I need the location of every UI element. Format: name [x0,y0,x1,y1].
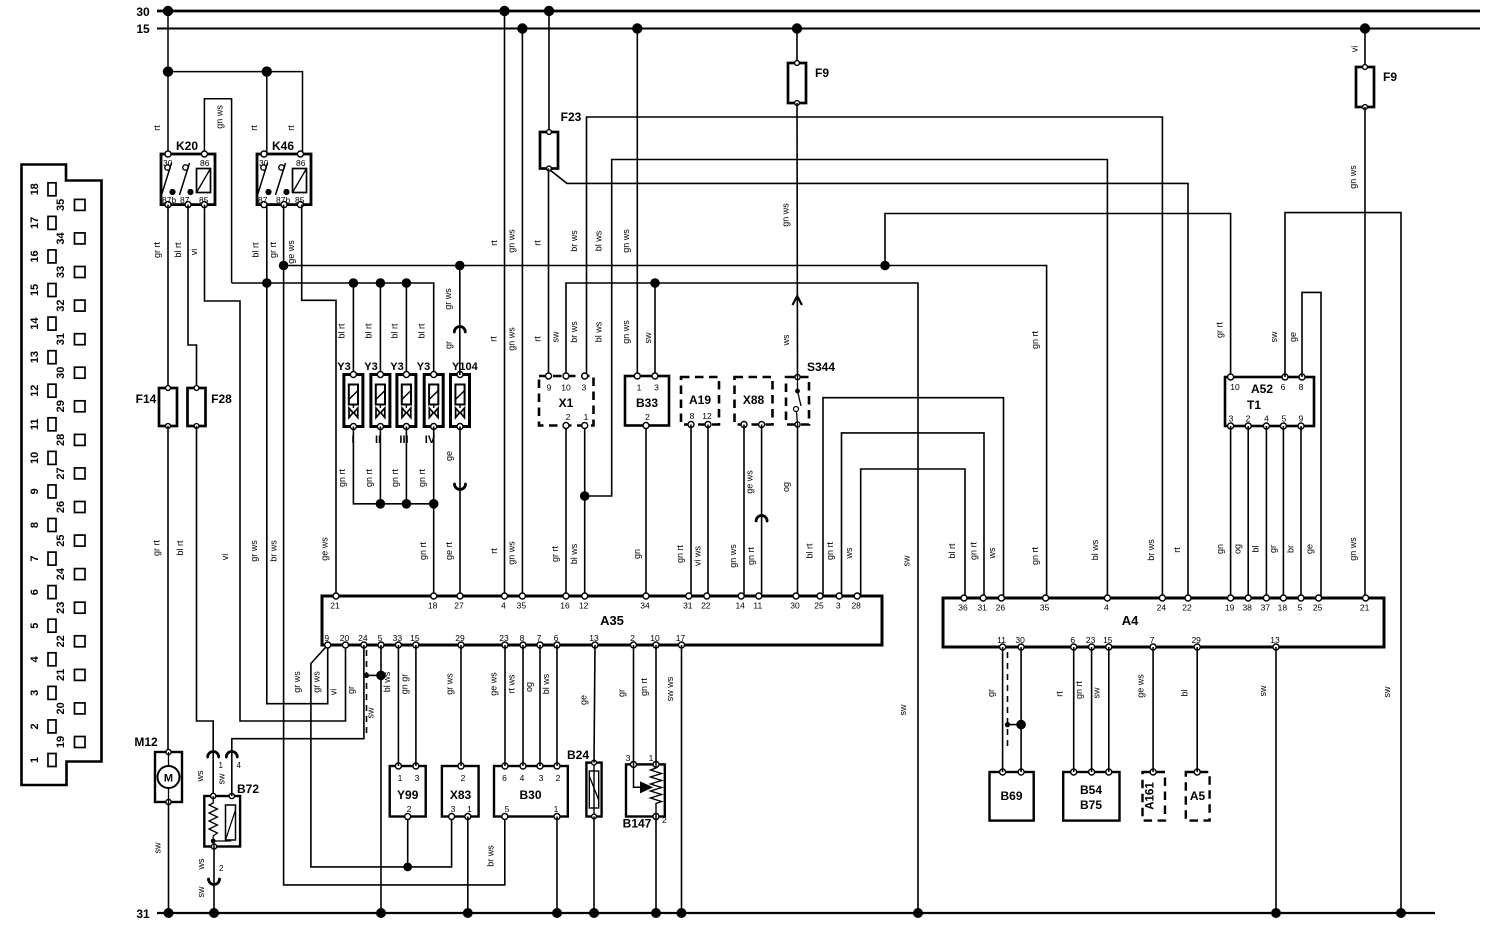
svg-text:30: 30 [1015,635,1025,645]
junction bus31 A35-5 [376,908,386,918]
svg-text:10: 10 [650,633,660,643]
svg-text:og: og [781,482,791,492]
svg-text:31: 31 [136,907,150,921]
svg-text:5: 5 [505,804,510,814]
svg-text:37: 37 [1261,603,1271,613]
svg-text:30: 30 [790,601,800,611]
solenoid valve Y3 II [371,372,390,430]
svg-text:34: 34 [55,231,67,244]
svg-text:3: 3 [654,383,659,393]
svg-text:rt ws: rt ws [507,674,517,693]
wire A35-15 gn-gr to Y99 pin 3 [415,645,417,766]
wire X83 pin 1 to bus 31 [467,817,469,914]
svg-text:A4: A4 [1122,613,1139,628]
svg-text:29: 29 [55,400,67,412]
svg-text:4: 4 [1104,603,1109,613]
wire A35-17 sw-ws to bus 31 [681,645,683,913]
svg-text:bl rt: bl rt [251,242,261,258]
svg-text:7: 7 [29,556,41,562]
svg-text:sw: sw [1269,331,1279,343]
wire A4-29 bl to A5 [1196,647,1198,772]
svg-text:2: 2 [566,412,571,422]
svg-text:rt: rt [1172,547,1182,553]
svg-text:24: 24 [55,567,67,580]
wire A35-2 gr to B147 pin 3 [633,645,635,764]
svg-text:X83: X83 [450,788,472,802]
svg-text:bl rt: bl rt [337,323,347,339]
wire F28 bl-rt to B72 pin 1 [197,426,214,795]
junction bus15 F9 [792,23,802,33]
wire feed to K46 pin 30 [266,72,268,154]
svg-text:vi: vi [220,554,230,561]
svg-text:3: 3 [29,690,41,696]
control unit A52 T1 [1225,374,1314,429]
svg-text:gr rt: gr rt [550,546,560,563]
svg-text:gr: gr [617,689,627,697]
wire bl-rt to Y3 II [379,283,381,375]
svg-text:25: 25 [1313,603,1323,613]
svg-text:X88: X88 [743,393,765,407]
svg-text:F9: F9 [815,66,829,80]
svg-text:2: 2 [556,773,561,783]
wire A4-11 gr to B69 [1002,647,1004,772]
svg-text:gn ws: gn ws [507,541,517,565]
svg-text:gn ws: gn ws [507,229,517,253]
wire B33 pin 2 gn to A35 pin 34 [645,426,647,597]
wire bl-rt to Y3 III [405,283,407,375]
svg-text:gn rt: gn rt [639,677,649,696]
fuse F14 [136,386,177,429]
junction bus31 A4-13 [1271,908,1281,918]
svg-text:sw: sw [1092,687,1102,699]
svg-text:38: 38 [1242,603,1252,613]
svg-text:35: 35 [55,199,67,211]
wire A35-10 gn-rt to B147 pin 1 [655,645,657,764]
svg-text:rt: rt [489,548,499,554]
svg-text:rt: rt [286,125,296,131]
svg-text:bl rt: bl rt [805,543,815,559]
svg-text:2: 2 [407,804,412,814]
svg-text:bl ws: bl ws [594,230,604,251]
connector X88 [735,377,773,428]
svg-text:1: 1 [467,804,472,814]
svg-text:T1: T1 [1247,398,1261,412]
node line A to A4 pin 35 [284,266,1047,599]
junction bus31 M12 [164,908,174,918]
svg-text:A19: A19 [689,393,711,407]
svg-text:1: 1 [29,757,41,763]
svg-text:B30: B30 [519,788,541,802]
svg-text:sw: sw [551,331,561,343]
connector X1 [539,373,594,429]
wire K20 85 vi to A35 pin 20 [205,205,346,721]
wire K20 87 bl-rt to F28 [188,205,197,388]
svg-text:B33: B33 [636,396,658,410]
svg-text:86: 86 [296,158,306,168]
svg-text:A5: A5 [1190,789,1206,803]
svg-text:25: 25 [814,601,824,611]
junction line A / A52 branch [880,261,890,271]
svg-text:br ws: br ws [1146,539,1156,561]
svg-text:9: 9 [29,488,41,494]
wire A52 pin 6 sw to bus 31 [1285,213,1401,913]
svg-text:1: 1 [554,804,559,814]
svg-text:16: 16 [560,601,570,611]
control unit A5 [1186,769,1210,821]
svg-text:bl rt: bl rt [947,543,957,559]
svg-text:rt: rt [533,336,543,342]
svg-text:rt: rt [489,336,499,342]
svg-text:gn ws: gn ws [1348,165,1358,189]
wires A52 bottom pins to A4 pins 19/38/37/18/5 [1230,426,1232,598]
svg-text:11: 11 [753,601,762,611]
svg-text:gn rt: gn rt [390,468,400,487]
svg-text:gr ws: gr ws [249,540,259,562]
svg-text:Y99: Y99 [397,788,419,802]
svg-text:vi: vi [189,249,199,256]
junction bus30 [499,6,509,16]
solenoid valve Y3 III [397,372,416,430]
svg-text:8: 8 [520,633,525,643]
wire B30 pin 1 to bus 31 [556,817,558,914]
svg-text:17: 17 [676,633,686,643]
svg-text:1: 1 [219,761,224,770]
wire A35-13 ge to B24 [594,645,595,763]
wires Y3 bottoms gn-rt to A35 pin 18 [353,427,433,504]
svg-text:Y3: Y3 [417,361,430,373]
svg-text:bl rt: bl rt [175,540,185,556]
svg-text:gr ws: gr ws [445,673,455,695]
svg-text:26: 26 [55,501,67,513]
svg-text:bl rt: bl rt [364,323,374,339]
svg-text:bl: bl [1180,689,1190,696]
svg-text:4: 4 [520,773,525,783]
svg-text:ge: ge [1305,544,1315,554]
svg-text:11: 11 [997,635,1006,645]
svg-text:14: 14 [735,601,745,611]
svg-text:19: 19 [1225,603,1235,613]
wire X1 pin 2 gr-rt to A35 pin 16 [565,426,567,597]
junction bus31 X83 [463,908,473,918]
svg-text:br ws: br ws [569,230,579,252]
wire A4-15 sw to B54 [1108,647,1110,772]
wire A4-13 sw to bus 31 [1275,647,1277,913]
svg-text:sw: sw [366,707,376,719]
solenoid valve Y3 IV [424,372,443,430]
svg-text:sw: sw [1382,686,1392,698]
wire A35-23 ge-ws to B30 pin 6 [504,645,506,766]
svg-text:21: 21 [1360,603,1370,613]
svg-text:ge: ge [1288,332,1298,342]
svg-text:ge ws: ge ws [745,470,755,494]
wire feed to K46 pin 86 [168,72,303,154]
svg-text:B72: B72 [237,782,259,796]
sensor B54 B75 [1063,769,1119,821]
svg-text:gn rt: gn rt [1074,680,1084,699]
control unit A4 [943,595,1384,650]
svg-text:5: 5 [1282,414,1287,424]
junction bus30 F23 [544,6,554,16]
svg-text:K20: K20 [176,139,198,153]
svg-text:12: 12 [29,385,41,397]
svg-text:2: 2 [461,773,466,783]
svg-text:18: 18 [1278,603,1288,613]
wire K20 pin 86 gn-ws to node B [204,99,231,283]
svg-text:bl rt: bl rt [417,323,427,339]
svg-text:gn ws: gn ws [621,229,631,253]
svg-text:33: 33 [55,266,67,278]
bridge A35-3 to A4-31 [842,433,985,598]
fuse F9 (middle) [788,61,829,106]
svg-text:bl rt: bl rt [390,323,400,339]
svg-text:ge ws: ge ws [320,537,330,561]
svg-text:bl ws: bl ws [541,673,551,694]
svg-text:gn ws: gn ws [621,320,631,344]
svg-text:sw ws: sw ws [665,676,675,701]
svg-text:36: 36 [958,603,968,613]
svg-text:85: 85 [199,195,209,205]
wire Y104 top gr-ws/gr from line A [459,266,461,376]
svg-text:A161: A161 [1145,782,1157,810]
wire sw to B33 pin 3 [654,283,656,376]
svg-text:ws: ws [781,334,791,346]
bus 30 (battery +) [157,10,1480,13]
svg-text:bl ws: bl ws [1090,539,1100,560]
motor M12 [134,735,182,805]
wire A35 pin 5 sw to bus 31 [380,645,382,913]
wire S344 og to A35 pin 30 [797,425,799,597]
svg-text:gn ws: gn ws [215,105,225,129]
svg-text:2: 2 [645,412,650,422]
svg-text:Y3: Y3 [390,361,403,373]
svg-text:6: 6 [502,773,507,783]
wire F23 rt branch to A4 pin 22 [550,170,1188,598]
svg-text:gn ws: gn ws [1348,537,1358,561]
wire bl-rt to Y3 I [352,283,354,375]
svg-text:F28: F28 [211,392,232,406]
junction line A / K46-87b [279,261,289,271]
junction line A / Y104 [455,261,465,271]
svg-text:18: 18 [428,601,438,611]
svg-text:B75: B75 [1080,798,1102,812]
svg-text:4: 4 [501,601,506,611]
svg-text:22: 22 [55,635,67,647]
svg-text:og: og [1233,544,1243,554]
svg-text:9: 9 [547,383,552,393]
svg-text:bl ws: bl ws [594,321,604,342]
svg-text:3: 3 [836,601,841,611]
svg-text:30: 30 [259,158,269,168]
svg-text:sw: sw [902,555,912,567]
svg-text:30: 30 [55,367,67,379]
svg-text:ws: ws [844,547,854,559]
svg-text:30: 30 [163,158,173,168]
wire A35-33 bl-ws to Y99 pin 1 [397,645,399,766]
svg-text:30: 30 [136,5,150,19]
svg-text:6: 6 [1281,382,1286,392]
connector X83 [442,763,479,820]
svg-text:A52: A52 [1251,382,1273,396]
junction K46 pin30 feed [262,66,272,76]
svg-text:sw: sw [898,704,908,716]
junction bus30/K20 feed [163,6,173,16]
svg-text:III: III [399,434,408,446]
wire A35-29 gr-ws to X83 pin 2 [460,645,462,766]
svg-text:6: 6 [554,633,559,643]
svg-text:87b: 87b [162,195,176,205]
svg-text:20: 20 [340,633,350,643]
svg-text:rt: rt [1055,691,1065,697]
sensor B30 [494,763,568,820]
svg-text:sw: sw [643,332,653,344]
control unit A19 [681,377,719,428]
svg-text:2: 2 [1246,414,1251,424]
wire K46 87b gr-rt / br-ws to B30 pin 5 [284,205,505,885]
junction Y3-III bottom [402,499,412,509]
svg-text:25: 25 [55,534,67,546]
svg-text:10: 10 [561,383,571,393]
svg-text:4: 4 [237,761,242,770]
sensor B24 [567,748,602,819]
junction B33 pin 3 [650,278,660,288]
junction bus15 F9 right [1360,23,1370,33]
svg-text:2: 2 [630,633,635,643]
wire A35-6 bl-ws to B30 pin 2 [556,645,558,766]
svg-text:gr ws: gr ws [443,288,453,310]
bridge A35-28 to A4-36 [861,469,965,598]
svg-text:1: 1 [637,383,642,393]
svg-text:5: 5 [29,623,41,629]
svg-text:gr: gr [444,341,454,349]
svg-text:ge ws: ge ws [1136,674,1146,698]
junction Y3-III [402,278,412,288]
svg-text:35: 35 [1040,603,1050,613]
svg-text:1: 1 [398,773,403,783]
connector break arc B72 pin1 [208,752,219,758]
wire K46 85 ge-ws to A35 pin 21 [302,205,336,596]
svg-text:1: 1 [649,753,654,763]
fuse F9 right feed vi from bus 15 [1364,29,1366,68]
junction bus31 B147 [651,908,661,918]
svg-text:33: 33 [393,633,403,643]
svg-text:og: og [524,682,534,692]
svg-text:3: 3 [451,804,456,814]
junction bus31 / sw [913,908,923,918]
svg-text:ge ws: ge ws [286,240,296,264]
dashed link A4 pin 11/30 [1007,652,1009,747]
svg-text:gn rt: gn rt [1030,330,1040,349]
wire A4-7 ge-ws to A161 [1152,647,1154,772]
junction relay feed line [163,66,173,76]
svg-text:9: 9 [1299,414,1304,424]
svg-text:35: 35 [517,601,527,611]
svg-text:M: M [164,773,173,785]
svg-text:23: 23 [55,602,67,614]
svg-text:ws: ws [196,858,206,870]
junction A35 pin 9 branch to Y99/X83 [311,645,452,867]
svg-text:sw: sw [1258,685,1268,697]
svg-text:8: 8 [1299,382,1304,392]
svg-text:20: 20 [55,702,67,714]
svg-text:ws: ws [195,770,205,782]
svg-text:ge ws: ge ws [489,672,499,696]
svg-text:X1: X1 [559,396,574,410]
svg-text:gn rt: gn rt [825,541,835,560]
svg-text:gr: gr [346,686,356,694]
svg-text:ws: ws [987,547,997,559]
wire gn-ws bus15 to A35 pin 35 [521,29,523,597]
svg-text:13: 13 [29,351,41,363]
wire B147 pin 2 to bus 31 [655,817,657,914]
svg-text:gr ws: gr ws [312,671,322,693]
svg-text:15: 15 [1103,635,1113,645]
svg-text:br ws: br ws [569,321,579,343]
svg-text:9: 9 [324,633,329,643]
svg-text:5: 5 [378,633,383,643]
svg-text:br: br [1286,545,1296,553]
svg-text:13: 13 [589,633,599,643]
potentiometer B147 [623,753,667,831]
svg-text:gn rt: gn rt [364,468,374,487]
svg-text:31: 31 [55,333,67,345]
fuse F28 [188,386,233,429]
svg-text:bl rt: bl rt [173,242,183,258]
svg-text:85: 85 [295,195,305,205]
svg-text:87b: 87b [276,195,290,205]
svg-text:15: 15 [410,633,420,643]
svg-text:gn rt: gn rt [746,546,756,565]
svg-text:15: 15 [29,284,41,296]
svg-text:86: 86 [200,158,210,168]
svg-text:24: 24 [1157,603,1167,613]
wire K20 87b gr-rt to F14 [167,205,169,388]
control unit A161 [1143,769,1166,821]
svg-text:gn rt: gn rt [675,544,685,563]
svg-text:18: 18 [29,183,41,195]
junction bus31 B72 [209,908,219,918]
svg-text:22: 22 [701,601,711,611]
svg-text:ge: ge [579,695,589,705]
junction bus31 B24 [589,908,599,918]
svg-text:8: 8 [29,522,41,528]
svg-text:B69: B69 [1000,789,1022,803]
svg-text:19: 19 [55,736,67,748]
svg-text:bl ws: bl ws [382,671,392,692]
svg-text:F14: F14 [136,392,157,406]
node line B left / Y3 group feed [232,283,434,375]
svg-text:24: 24 [358,633,368,643]
multi-pin connector block (pins 1-35) [22,165,102,786]
svg-text:gn: gn [632,549,642,559]
svg-text:3: 3 [626,753,631,763]
svg-text:A35: A35 [600,613,624,628]
bridge A35-25 to A4-26 [823,398,1004,598]
wire A19 pin 8 gn-rt to A35 pin 31 [690,425,692,597]
relay K46 [257,139,311,208]
svg-text:gn gr: gn gr [400,674,410,695]
wire F9 gn-ws / ws to S344 top [796,29,798,64]
wire A4-23 gn-rt to B54 [1091,647,1093,772]
junction bus31 B30 [552,908,562,918]
svg-text:28: 28 [55,434,67,446]
svg-text:32: 32 [55,299,67,311]
bus 15 (ignition +) [157,28,1480,30]
svg-text:31: 31 [977,603,987,613]
svg-text:17: 17 [29,217,41,229]
svg-text:29: 29 [1191,635,1201,645]
svg-text:87: 87 [180,195,190,205]
svg-text:3: 3 [415,773,420,783]
